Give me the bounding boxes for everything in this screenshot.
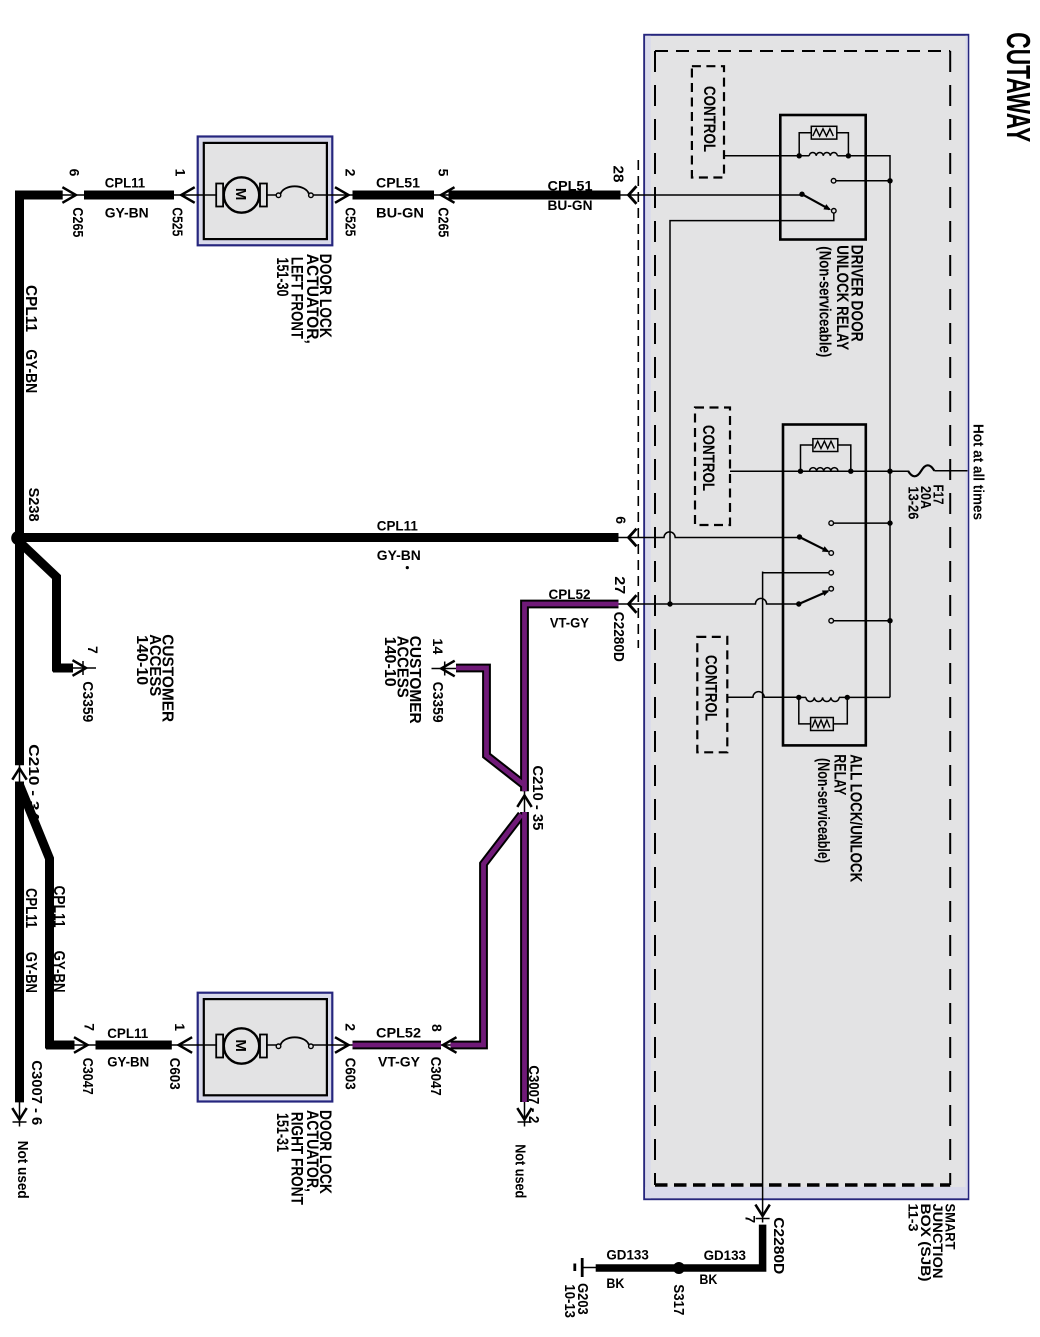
svg-text:CPL51: CPL51 (376, 175, 420, 191)
svg-text:C2280D: C2280D (610, 612, 627, 662)
svg-text:14: 14 (430, 638, 446, 654)
svg-text:(Non-serviceable): (Non-serviceable) (814, 758, 832, 863)
svg-text:BU-GN: BU-GN (376, 205, 424, 221)
svg-text:M: M (232, 1039, 249, 1052)
svg-text:C3007 - 6: C3007 - 6 (28, 1060, 45, 1125)
svg-text:8: 8 (429, 1024, 445, 1032)
svg-text:GY-BN: GY-BN (107, 1054, 149, 1070)
svg-text:27: 27 (611, 576, 628, 594)
svg-text:C525: C525 (168, 207, 185, 236)
svg-text:1: 1 (173, 169, 189, 177)
svg-text:GD133: GD133 (704, 1247, 747, 1263)
svg-text:BU-GN: BU-GN (548, 197, 593, 213)
svg-text:CPL11: CPL11 (377, 518, 418, 534)
svg-text:2: 2 (342, 169, 358, 177)
svg-text:151-30: 151-30 (273, 258, 291, 297)
svg-text:CONTROL: CONTROL (699, 425, 718, 491)
svg-text:28: 28 (610, 166, 627, 183)
svg-text:CUTAWAY: CUTAWAY (999, 32, 1036, 142)
svg-text:C265: C265 (69, 207, 86, 237)
svg-text:5: 5 (436, 169, 452, 177)
svg-text:VT-GY: VT-GY (378, 1054, 421, 1070)
svg-text:7: 7 (742, 1215, 758, 1223)
svg-text:UNLOCK RELAY: UNLOCK RELAY (833, 245, 851, 350)
svg-text:GD133: GD133 (606, 1247, 649, 1263)
svg-text:C210 - 35: C210 - 35 (529, 765, 546, 830)
svg-text:140-10: 140-10 (133, 635, 150, 685)
svg-text:RELAY: RELAY (831, 754, 849, 795)
svg-text:BK: BK (606, 1275, 624, 1291)
svg-text:GY-BN: GY-BN (105, 205, 149, 221)
svg-text:GY-BN: GY-BN (377, 547, 421, 563)
svg-text:2: 2 (342, 1023, 358, 1031)
svg-text:C3047: C3047 (79, 1058, 96, 1095)
svg-text:10-13: 10-13 (561, 1284, 578, 1318)
svg-text:13-26: 13-26 (905, 486, 922, 519)
svg-text:S317: S317 (670, 1284, 687, 1315)
svg-text:GY-BN: GY-BN (22, 952, 39, 993)
svg-text:6: 6 (66, 169, 82, 177)
svg-text:C3359: C3359 (429, 682, 446, 723)
svg-text:11-3: 11-3 (906, 1204, 921, 1233)
svg-text:1: 1 (172, 1023, 188, 1031)
svg-text:CPL11: CPL11 (107, 1025, 148, 1041)
svg-text:CPL52: CPL52 (376, 1025, 421, 1041)
svg-text:CPL52: CPL52 (549, 586, 591, 602)
svg-text:CPL51: CPL51 (548, 178, 593, 194)
svg-text:7: 7 (85, 646, 101, 654)
svg-text:6: 6 (613, 516, 629, 524)
svg-text:(Non-serviceable): (Non-serviceable) (815, 246, 833, 357)
svg-text:BK: BK (699, 1271, 717, 1287)
svg-text:C525: C525 (341, 207, 358, 236)
svg-text:C265: C265 (435, 207, 452, 237)
svg-text:C603: C603 (341, 1058, 358, 1090)
svg-text:CPL11: CPL11 (22, 888, 39, 928)
svg-text:M: M (232, 188, 249, 201)
svg-text:Not used: Not used (14, 1141, 31, 1199)
svg-text:Not used: Not used (512, 1144, 529, 1198)
svg-text:VT-GY: VT-GY (550, 615, 590, 631)
svg-text:GY-BN: GY-BN (50, 951, 67, 993)
svg-text:CPL11: CPL11 (22, 285, 39, 332)
svg-text:C2280D: C2280D (770, 1217, 787, 1274)
svg-text:S238: S238 (25, 488, 42, 522)
svg-text:C3047: C3047 (427, 1057, 444, 1096)
svg-text:Hot at all times: Hot at all times (970, 424, 986, 520)
svg-text:C210 - 34: C210 - 34 (25, 744, 42, 821)
svg-text:C603: C603 (166, 1058, 183, 1090)
svg-text:CPL11: CPL11 (50, 886, 67, 928)
svg-text:C3007 - 2: C3007 - 2 (525, 1065, 542, 1123)
svg-text:C3359: C3359 (79, 681, 96, 722)
svg-text:7: 7 (81, 1023, 97, 1031)
svg-text:140-10: 140-10 (381, 637, 398, 687)
svg-text:CPL11: CPL11 (105, 175, 146, 191)
svg-text:CONTROL: CONTROL (700, 86, 719, 152)
svg-text:151-31: 151-31 (273, 1113, 291, 1152)
svg-text:GY-BN: GY-BN (22, 349, 39, 393)
svg-text:CONTROL: CONTROL (701, 655, 720, 721)
